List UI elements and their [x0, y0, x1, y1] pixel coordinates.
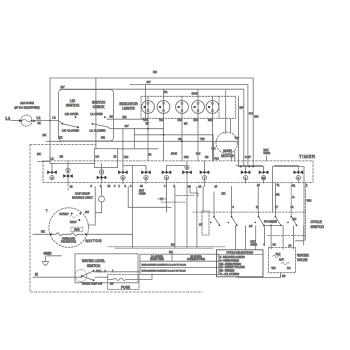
svg-text:GY3: GY3: [144, 119, 149, 122]
timer contact 4: [118, 166, 128, 184]
wire console drop: [95, 78, 97, 149]
svg-text:TW: TW: [235, 136, 240, 140]
wire bus GY upper: [60, 89, 244, 166]
wire valve return: [237, 273, 281, 278]
svg-text:22: 22: [70, 186, 73, 189]
svg-text:C1: C1: [292, 185, 296, 188]
svg-text:6: 6: [105, 270, 107, 273]
svg-text:L1: L1: [53, 115, 57, 119]
lamp DS5: [206, 101, 219, 114]
valve solenoid cold: [281, 262, 289, 264]
wire N feed: [33, 276, 82, 278]
svg-text:ACT: ACT: [279, 259, 284, 262]
timer contact 11: [294, 167, 304, 183]
svg-text:SWITCH: SWITCH: [311, 225, 325, 229]
svg-text:PROTECTOR: PROTECTOR: [61, 240, 76, 243]
cycle switch SW3e: [287, 216, 297, 226]
svg-text:3: 3: [264, 244, 266, 247]
svg-text:BU: BU: [184, 122, 188, 125]
timer motor box: [95, 149, 118, 168]
svg-text:CHECK: CHECK: [93, 105, 106, 109]
wire drop 5 long: [132, 166, 134, 248]
svg-text:C2: C2: [273, 244, 277, 247]
wire bus TW: [47, 141, 238, 161]
timer box dashed: [43, 160, 313, 162]
svg-text:FULL: FULL: [96, 270, 103, 273]
svg-text:L1: L1: [6, 116, 12, 121]
svg-text:L1 CLOSED: L1 CLOSED: [90, 129, 106, 133]
svg-text:GND: GND: [44, 252, 52, 256]
svg-text:BU: BU: [171, 243, 175, 247]
lamp drop wires to timer: [148, 96, 213, 161]
svg-text:BK: BK: [38, 122, 42, 125]
svg-text:BU: BU: [212, 147, 216, 151]
svg-text:WATER TEMP SW: WATER TEMP SW: [82, 283, 103, 286]
svg-text:BN: BN: [110, 283, 114, 286]
svg-text:LID CLOSED: LID CLOSED: [62, 129, 79, 133]
svg-text:1-3: 1-3: [96, 155, 100, 158]
lamp riser wires: [164, 89, 199, 96]
cycle switch SW3b: [228, 212, 238, 226]
svg-text:BP: BP: [240, 105, 244, 109]
svg-text:1: 1: [119, 185, 121, 188]
timer contact 6: [162, 166, 172, 187]
svg-text:BK: BK: [222, 192, 226, 196]
svg-text:FUSE: FUSE: [121, 285, 131, 289]
svg-text:6: 6: [233, 206, 235, 209]
svg-text:MAIN AGITATE CONNECT 1 A & B: MAIN AGITATE CONNECT 1 A & B TO TB-2B: [142, 263, 187, 266]
svg-text:24: 24: [289, 244, 292, 247]
svg-text:17: 17: [215, 186, 218, 189]
svg-text:4: 4: [164, 185, 166, 188]
timer contact 9: [241, 167, 251, 183]
svg-text:P1: P1: [164, 90, 168, 94]
svg-text:BH: BH: [276, 193, 280, 196]
svg-text:6: 6: [91, 185, 93, 188]
svg-text:13: 13: [257, 184, 260, 187]
cycle switch SW3a: [210, 212, 220, 226]
svg-text:BK: BK: [153, 70, 157, 74]
drops to bottom row: [235, 226, 255, 250]
svg-text:7: 7: [112, 270, 114, 273]
wire motor feeds: [226, 90, 231, 134]
svg-text:BK: BK: [41, 230, 45, 234]
main motor drops: [231, 152, 235, 161]
svg-text:3: 3: [306, 185, 308, 188]
svg-text:SWITCH: SWITCH: [66, 104, 80, 108]
water valve box: [269, 248, 296, 273]
wire 22 to cap note: [67, 188, 69, 190]
bus BU/BK: [108, 246, 225, 248]
motor bottom wire: [33, 233, 133, 236]
svg-text:SWITCH: SWITCH: [92, 101, 106, 105]
motor M1: [49, 208, 89, 248]
svg-text:FP 6O7 WH: FP 6O7 WH: [264, 221, 277, 224]
svg-text:USED: USED: [251, 244, 258, 247]
cycle switch SW3d: [271, 216, 281, 226]
svg-text:AO: AO: [287, 267, 291, 270]
svg-text:SWITCH: SWITCH: [87, 264, 101, 268]
svg-text:INDICATOR: INDICATOR: [119, 102, 138, 106]
svg-text:L1: L1: [37, 116, 41, 120]
svg-text:PK3: PK3: [178, 119, 183, 122]
svg-text:BR3: BR3: [208, 119, 213, 122]
svg-text:L1: L1: [51, 157, 55, 161]
svg-text:L1 OPEN: L1 OPEN: [90, 112, 102, 116]
svg-text:MODELS ONLY: MODELS ONLY: [72, 195, 93, 199]
svg-text:WH: WH: [272, 267, 276, 270]
wire L1 drop: [49, 78, 51, 162]
svg-text:BR: BR: [123, 115, 127, 119]
svg-text:USED: USED: [139, 193, 146, 196]
svg-text:4: 4: [114, 185, 116, 188]
svg-text:2: 2: [125, 185, 127, 188]
svg-text:GY: GY: [61, 85, 65, 89]
wire fuse to console: [32, 120, 50, 122]
svg-text:WATER LEVEL: WATER LEVEL: [82, 259, 105, 263]
svg-text:BU3: BU3: [194, 119, 199, 122]
svg-text:10A FUSE: 10A FUSE: [20, 101, 34, 105]
svg-text:T1: T1: [277, 184, 280, 187]
timer contact 7: [182, 161, 192, 187]
svg-text:GY: GY: [147, 80, 151, 84]
svg-text:PL4: PL4: [196, 153, 201, 156]
svg-text:BK: BK: [169, 250, 173, 254]
svg-text:GY: GY: [199, 224, 203, 227]
svg-text:LIGHTS: LIGHTS: [122, 106, 135, 110]
wire bus upper2: [130, 85, 248, 167]
lid switch box: [59, 90, 114, 142]
svg-text:13: 13: [108, 185, 111, 188]
svg-text:P-OT: P-OT: [245, 156, 251, 159]
svg-text:(IF SO EQUIPPED): (IF SO EQUIPPED): [14, 106, 39, 110]
cycle switch SW3c: [255, 212, 265, 226]
svg-text:SPIN AGITATE CONNECT 1 A & B: SPIN AGITATE CONNECT 1 A & B TO TB-1B: [142, 269, 187, 272]
timer right buses: [239, 166, 304, 168]
wire switch check out: [107, 85, 146, 120]
timer contact 10: [259, 167, 269, 183]
timer contact 3: [97, 164, 107, 184]
svg-text:CYCLE: CYCLE: [311, 220, 323, 224]
svg-text:25 23: 25 23: [171, 153, 178, 156]
cycle switch dashed box: [193, 212, 306, 241]
cabinet dashed outline: [30, 145, 202, 293]
svg-text:20: 20: [188, 186, 191, 189]
svg-text:6: 6: [130, 185, 132, 188]
svg-text:P1B: P1B: [184, 156, 189, 159]
svg-text:MOTOR: MOTOR: [221, 154, 234, 158]
svg-text:LID: LID: [70, 99, 76, 103]
svg-text:BU: BU: [85, 210, 89, 214]
table cycle selections: [217, 250, 264, 277]
wire drops right bundle: [238, 96, 240, 167]
svg-text:PROT: PROT: [70, 222, 77, 224]
svg-text:BK: BK: [254, 114, 258, 118]
lamp DS1: [142, 101, 155, 114]
indicator lights box: [141, 96, 236, 118]
timer contact 5: [141, 166, 151, 184]
timer contact 1: [47, 164, 57, 180]
svg-text:CONNECT PINS: CONNECT PINS: [187, 258, 205, 261]
capacitor C1: [99, 196, 105, 202]
lamp DS2: [157, 101, 170, 114]
svg-text:N: N: [35, 272, 38, 276]
svg-text:BN: BN: [282, 275, 286, 278]
wire wl to fuse: [95, 276, 108, 278]
svg-text:USED: USED: [264, 152, 271, 155]
svg-text:YL - ALL OTHERS: YL - ALL OTHERS: [220, 273, 240, 276]
svg-text:28: 28: [140, 185, 143, 188]
main motor M2: [216, 132, 238, 154]
svg-text:PL4: PL4: [215, 157, 220, 160]
svg-text:4B: 4B: [178, 137, 182, 141]
svg-text:19: 19: [199, 186, 202, 189]
svg-text:LID OPEN: LID OPEN: [65, 112, 79, 116]
cycle sw feeds: [232, 183, 276, 217]
svg-text:GY: GY: [146, 122, 150, 125]
timer bus segments: [123, 165, 299, 167]
timer contact 8: [200, 161, 210, 187]
svg-text:YL3: YL3: [159, 119, 164, 122]
wire L1 to fuse: [12, 120, 22, 122]
svg-text:AC: AC: [249, 225, 253, 228]
wire drops mid: [175, 187, 197, 248]
svg-text:RUN: RUN: [74, 228, 79, 231]
svg-text:START: START: [59, 212, 68, 216]
svg-text:MOTOR: MOTOR: [86, 239, 103, 243]
svg-text:VALVE: VALVE: [297, 258, 308, 262]
water level switch SW4: [75, 270, 87, 282]
svg-text:13: 13: [114, 156, 117, 159]
svg-text:TIMER: TIMER: [299, 154, 316, 159]
svg-text:WH: WH: [307, 199, 312, 203]
svg-text:GY: GY: [125, 124, 129, 128]
svg-text:PU: PU: [249, 111, 253, 115]
svg-text:PL3: PL3: [124, 156, 129, 159]
svg-text:1L: 1L: [256, 206, 259, 209]
console top wire BK: [50, 78, 253, 167]
svg-text:BK: BK: [59, 136, 63, 140]
lamp DS4: [192, 101, 205, 114]
svg-text:BK: BK: [43, 133, 47, 137]
svg-text:BASIC TIME: BASIC TIME: [150, 258, 164, 261]
svg-text:T: T: [46, 210, 48, 213]
svg-text:GY3: GY3: [192, 92, 198, 96]
lamp DS3: [176, 101, 189, 114]
wire bus gy mid: [108, 127, 164, 129]
svg-text:BK: BK: [37, 152, 41, 156]
wire to timer contact: [38, 162, 95, 164]
wire motor link: [128, 187, 171, 208]
timer contact 2: [63, 161, 73, 189]
table connections: [140, 254, 219, 274]
svg-text:BR: BR: [101, 136, 105, 140]
water level switch box: [75, 254, 138, 283]
svg-text:A-: A-: [292, 196, 295, 199]
svg-text:3B: 3B: [60, 155, 64, 159]
svg-text:TW: TW: [200, 137, 205, 141]
fuse F2: [108, 275, 140, 290]
junction: [49, 120, 51, 122]
fuse F1 10A: [21, 115, 32, 126]
svg-text:36: 36: [110, 115, 114, 119]
svg-text:WATER: WATER: [297, 254, 309, 258]
svg-text:M3: M3: [205, 156, 209, 159]
wire bus mid2: [134, 134, 213, 136]
svg-text:PK: PK: [148, 154, 152, 157]
svg-text:CYCLE SELECTIONS: CYCLE SELECTIONS: [226, 251, 253, 255]
